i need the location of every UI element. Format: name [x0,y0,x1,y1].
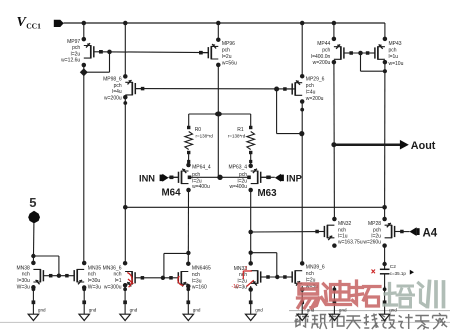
svg-text:gnd: gnd [339,308,347,313]
transistor MP97 [61,37,103,67]
transistor MN6465 [169,261,211,290]
transistor MN32 [315,217,362,248]
svg-text:MN36_6: MN36_6 [103,265,122,271]
wire MN36_6-MN6465 gate tie [142,276,171,280]
svg-text:w=163.75u: w=163.75u [338,239,363,245]
svg-text:nch: nch [306,271,314,277]
watermark rule lower [0,321,450,323]
svg-text:INP: INP [286,173,302,183]
svg-text:pch: pch [114,83,122,89]
ground MN6465 [183,286,201,321]
svg-text:MP29_6: MP29_6 [306,76,325,82]
terminal L1 stake [28,211,40,263]
wire C vertical (MP96 tail) [217,23,219,40]
svg-text:l=30u: l=30u [88,278,101,284]
svg-text:MP44: MP44 [317,41,330,47]
svg-text:pch: pch [72,45,80,51]
svg-text:l=1u: l=1u [389,54,399,60]
svg-text:MP97: MP97 [67,39,80,45]
wire MP29_6 diode loop [274,87,304,137]
svg-text:gnd: gnd [38,308,46,313]
wire G vertical (MP44/MN32 output branch) [333,23,335,39]
wire diff-pair bulk tie [188,175,251,180]
wire MN38-MN35 gate tie [51,274,67,278]
watermark rule upper [289,310,450,312]
svg-text:l=2u: l=2u [71,51,81,57]
transistor MP29_6 [283,74,324,104]
ground MN36_6 [120,286,138,321]
watermark text line1 (red+gray CJK) [298,281,444,308]
wire M63 drain diode loop [249,251,277,278]
svg-text:nch: nch [88,272,96,278]
svg-text:MP63_4: MP63_4 [228,165,247,171]
ground MN32 [329,286,347,321]
wire MN33-MN39_6 gate tie [268,275,286,279]
ground MN38 [28,286,46,321]
svg-text:l=4u: l=4u [306,90,316,96]
svg-text:w=400u: w=400u [229,184,247,190]
svg-text:nch: nch [192,272,200,278]
svg-text:A4: A4 [423,228,438,240]
wire MP43 diode loop [361,53,388,73]
svg-text:l=1: l=1 [115,278,122,284]
ground C2 [379,286,397,321]
svg-text:pch: pch [322,47,330,53]
wire F vertical (MP29_6/MN39_6 branch) [301,23,303,76]
svg-text:w=200u: w=200u [104,96,122,102]
svg-text:pch: pch [222,48,230,54]
svg-text:l=30u: l=30u [17,278,30,284]
svg-text:l=3u: l=3u [192,278,202,284]
wire D vertical (R0/M64/MN6465 branch) [188,114,190,128]
svg-text:CC1: CC1 [26,21,41,30]
svg-text:MN32: MN32 [338,221,352,227]
ground MN35 [79,286,97,321]
transistor MN38 [16,261,52,291]
svg-text:MP98_6: MP98_6 [103,76,122,82]
terminal INP [261,173,302,183]
svg-text:l=4u: l=4u [112,89,122,95]
svg-text:c=35.1p: c=35.1p [390,271,407,276]
svg-text:Aout: Aout [411,140,436,152]
ground MN33 [246,286,264,321]
svg-text:5: 5 [29,195,36,210]
wire B vertical (MP98_6/MN36_6 branch) [124,23,126,76]
svg-text:nch: nch [338,227,346,233]
svg-text:pch: pch [389,48,397,54]
transistor M63 (MP63_4) [228,164,269,193]
svg-text:R1: R1 [237,127,244,133]
svg-text:MP96: MP96 [222,41,235,47]
svg-text:r=138*rd: r=138*rd [196,134,214,139]
svg-text:MP64_4: MP64_4 [192,165,211,171]
junction dots on rail [82,21,337,26]
transistor MP44 [311,37,353,66]
ground MN39_6 [297,286,315,321]
transistor MN36_6 [103,261,145,290]
svg-text:MN6465: MN6465 [192,266,211,272]
node MP98_6 bulk dot [123,101,127,105]
node MP29_6 bulk dot [300,108,304,112]
wire H vertical (MP43/MP28 branch) [384,62,386,219]
wire M63 drain to MN32 gate [248,230,319,235]
svg-text:w=10u: w=10u [389,61,404,67]
svg-text:gnd: gnd [130,308,138,313]
svg-text:w=400u: w=400u [192,184,210,190]
transistor MP28 [363,217,403,248]
svg-text:w=160: w=160 [192,285,207,291]
svg-text:w=200u: w=200u [306,96,324,102]
wire MP97 diode loop [80,52,110,76]
terminal VCC1 [17,15,64,30]
svg-text:MN39_6: MN39_6 [306,265,325,271]
svg-text:gnd: gnd [193,308,201,313]
resistor R0 [185,126,213,163]
wire E vertical (R1/M63/MN33 branch) [250,114,252,128]
svg-text:W=3u: W=3u [88,285,101,291]
svg-text:gnd: gnd [255,308,263,313]
svg-text:MN38: MN38 [16,265,30,271]
wire MP43 source drop [384,23,386,39]
svg-text:INN: INN [139,173,155,183]
annotation red arc MN6465 [178,276,183,286]
svg-text:l=2u: l=2u [222,54,232,60]
annotation red arc MN36_6 [127,273,133,288]
svg-text:M64: M64 [162,188,182,199]
transistor MP43 [366,37,404,67]
wire MP44-MP43 gate tie [351,51,369,56]
svg-text:gnd: gnd [89,308,97,313]
svg-text:MP28: MP28 [368,221,381,227]
svg-text:w=260u: w=260u [363,239,381,245]
wire MP97 gate node [99,50,208,55]
svg-text:w=200u: w=200u [313,60,331,66]
terminal Aout [331,140,435,152]
svg-text:w=300u: w=300u [104,284,122,290]
svg-text:R0: R0 [195,127,202,133]
annotation red marks MN33 [232,266,254,290]
transistor MN33 [234,261,270,292]
capacitor C2 [372,246,415,288]
svg-text:MP43: MP43 [389,41,402,47]
svg-text:-10: -10 [232,284,239,290]
svg-text:MN35: MN35 [88,265,102,271]
wire MP98_6 drain to MP43 drain (long) [123,205,387,210]
svg-text:r=138*rd: r=138*rd [228,134,246,139]
wire tail split to resistors [189,112,251,117]
terminal A4 [402,227,438,239]
svg-text:2: 2 [245,266,248,272]
transistor M64 (MP64_4) [169,163,210,193]
wire M64 drain diode loop [164,251,191,278]
svg-text:l=2u: l=2u [238,278,248,284]
svg-text:pch: pch [373,227,381,233]
transistor MN39_6 [283,261,325,292]
svg-text:C2: C2 [390,264,396,270]
svg-text:pch: pch [306,83,314,89]
transistor MP96 [199,37,237,67]
svg-text:W=3u: W=3u [17,285,30,291]
transistor MN35 [65,261,101,291]
svg-text:nch: nch [22,272,30,278]
svg-text:nch: nch [113,272,121,278]
wire A vertical (MP97/MN35 branch) [83,23,85,39]
resistor R1 [228,126,255,163]
wire MN38 diode loop [31,254,59,276]
transistor MP98_6 [103,74,144,101]
svg-text:gnd: gnd [389,308,397,313]
watermark text line2 (gray) [295,313,448,330]
svg-text:w=12.6u: w=12.6u [61,58,80,64]
svg-text:w=56u: w=56u [222,60,237,66]
terminal INN [139,173,179,183]
net VCC1 rail [64,22,385,24]
wire gate bus MP98_6 to MP29_6 [135,88,295,90]
svg-text:M63: M63 [258,188,278,199]
